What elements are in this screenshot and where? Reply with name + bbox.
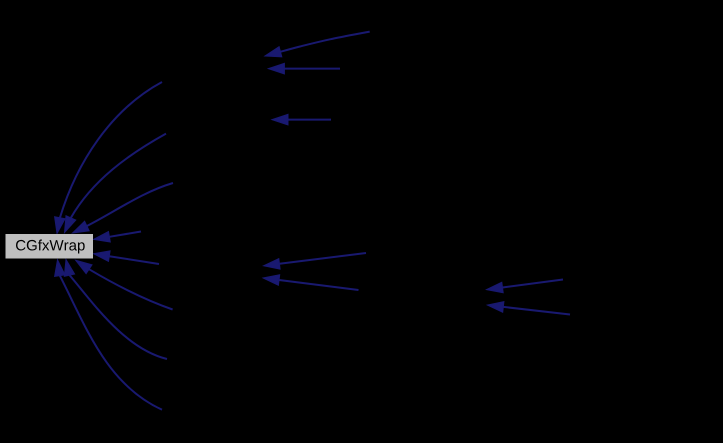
edge Z: [76, 260, 173, 309]
edge R1: [94, 232, 141, 243]
edge C1: [55, 82, 162, 234]
edge Y: [64, 260, 167, 360]
edge M1: [264, 253, 366, 269]
edge A3: [272, 114, 331, 125]
edge C3: [73, 183, 174, 233]
edge R2: [94, 251, 160, 264]
edge X: [55, 260, 162, 410]
edge A1: [265, 32, 370, 57]
edge N2: [487, 302, 570, 315]
edge A2: [268, 63, 340, 74]
edge C2: [65, 134, 167, 233]
node CGfxWrap: [6, 234, 94, 259]
edge N1: [487, 280, 563, 293]
edge M2: [263, 275, 358, 290]
